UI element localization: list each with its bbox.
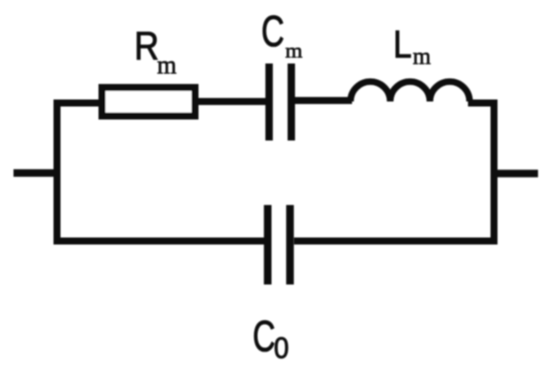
svg-text:C: C <box>261 7 284 56</box>
svg-text:R: R <box>134 23 159 68</box>
wire: right terminal stub <box>494 170 538 178</box>
inductor Lm (three humps) <box>351 82 470 102</box>
capacitor C0 right plate <box>286 205 294 285</box>
wire: left vertical with top-left and bottom-left corners and bottom rail to C0 <box>57 103 265 241</box>
svg-text:m: m <box>285 39 302 63</box>
wire: Cm to inductor <box>295 97 352 104</box>
wire: resistor to Cm <box>199 98 267 105</box>
resistor Rm (box) <box>102 88 195 117</box>
capacitor Cm left plate <box>265 64 272 141</box>
svg-text:L: L <box>393 22 412 66</box>
svg-text:0: 0 <box>274 332 289 366</box>
svg-text:m: m <box>413 44 431 70</box>
capacitor Cm right plate <box>288 64 295 141</box>
wire: inductor to right vertical, right vertical, bottom rail to C0 <box>294 103 494 241</box>
svg-text:C: C <box>253 312 276 361</box>
capacitor C0 left plate <box>264 205 272 285</box>
svg-text:m: m <box>157 50 177 80</box>
wire: left terminal stub <box>14 169 58 177</box>
